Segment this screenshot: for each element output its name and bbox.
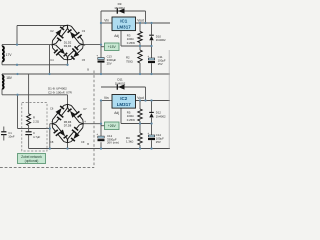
svg-text:Adj: Adj	[114, 34, 119, 38]
svg-text:C3: C3	[82, 29, 86, 33]
svg-text:C4: C4	[50, 58, 54, 62]
svg-text:+26V: +26V	[108, 124, 117, 128]
svg-text:−: −	[51, 120, 53, 124]
svg-text:B: B	[87, 68, 89, 72]
svg-text:+: +	[84, 120, 86, 124]
svg-text:+15V: +15V	[108, 45, 117, 49]
svg-text:25V: 25V	[156, 140, 161, 144]
svg-text:0.25W: 0.25W	[127, 118, 135, 122]
svg-text:D5,D6: D5,D6	[64, 120, 72, 124]
svg-text:26V (min): 26V (min)	[107, 141, 119, 145]
svg-text:D1,D2: D1,D2	[64, 40, 72, 44]
svg-text:LM317: LM317	[117, 102, 132, 107]
svg-text:750Ω: 750Ω	[126, 59, 133, 63]
svg-text:1N4002: 1N4002	[115, 81, 126, 85]
svg-text:(optional): (optional)	[25, 159, 39, 163]
svg-text:B: B	[87, 142, 89, 146]
svg-text:2.2Ω: 2.2Ω	[33, 119, 39, 123]
svg-text:IC1: IC1	[120, 19, 128, 24]
svg-text:10nF: 10nF	[8, 134, 15, 138]
svg-text:+: +	[96, 132, 98, 136]
svg-text:+: +	[96, 54, 98, 58]
svg-text:17V: 17V	[6, 53, 13, 57]
svg-text:1N4002: 1N4002	[114, 6, 125, 10]
svg-text:C2-9: 100nF, X7R: C2-9: 100nF, X7R	[48, 90, 73, 94]
svg-text:C2: C2	[50, 29, 54, 33]
svg-text:D7,D8: D7,D8	[64, 124, 72, 128]
svg-text:15V: 15V	[158, 62, 163, 66]
svg-text:Vin: Vin	[104, 19, 109, 23]
svg-text:Vout: Vout	[137, 96, 143, 100]
svg-text:C8: C8	[50, 140, 54, 144]
svg-text:18V: 18V	[6, 76, 13, 80]
svg-text:C9: C9	[81, 140, 85, 144]
svg-text:LM317: LM317	[117, 24, 132, 29]
svg-text:Adj: Adj	[114, 111, 119, 115]
svg-text:IC2: IC2	[120, 96, 128, 101]
svg-text:Vout: Vout	[137, 19, 143, 23]
svg-text:−: −	[51, 44, 53, 48]
svg-text:0.25W: 0.25W	[127, 41, 135, 45]
svg-text:C5: C5	[82, 58, 86, 62]
svg-text:1N4002: 1N4002	[156, 114, 166, 118]
svg-text:C7: C7	[83, 107, 87, 111]
svg-text:25V: 25V	[107, 61, 112, 65]
svg-text:+: +	[83, 43, 85, 47]
svg-text:1.3kΩ: 1.3kΩ	[126, 140, 133, 144]
svg-text:Vin: Vin	[104, 96, 109, 100]
svg-text:D3,D4: D3,D4	[64, 44, 72, 48]
svg-text:4.7µF: 4.7µF	[33, 135, 40, 139]
svg-text:C6: C6	[50, 106, 54, 110]
svg-text:1N4002: 1N4002	[156, 38, 166, 42]
